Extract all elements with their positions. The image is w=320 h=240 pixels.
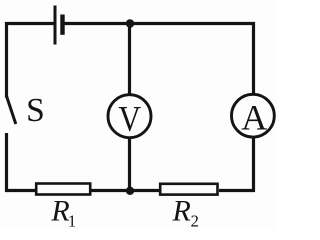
svg-text:R: R [172,194,191,227]
label R1 [50,194,76,230]
battery cell (long plate) [54,6,57,45]
wire top-left (left corner to battery) [5,22,55,25]
wire right side lower (ammeter to bottom-right corner) [252,138,255,193]
resistor R1 [36,184,90,195]
wire resistor R1 to bottom-left corner [5,189,35,192]
label R2 [172,194,199,230]
svg-text:R: R [50,194,69,227]
switch S blade [7,96,16,124]
svg-text:1: 1 [68,211,76,229]
node bottom junction [126,187,134,195]
svg-text:S: S [26,92,45,129]
wire left side lower (bottom corner up to switch) [5,133,8,192]
battery cell (short thick plate) [60,15,64,35]
ammeter A [232,94,275,137]
wire battery to top node [65,22,131,25]
svg-text:A: A [241,97,267,137]
voltmeter V [108,95,151,139]
wire middle branch upper (top node to voltmeter) [128,24,131,95]
node top junction [126,19,135,28]
wire bottom-right corner to resistor R2 [219,189,255,192]
wire top node to top-right corner [130,22,255,25]
resistor R2 [160,184,217,195]
wire bottom node to resistor R1 [92,189,131,192]
wire middle branch lower (voltmeter to bottom node) [128,138,131,191]
svg-text:2: 2 [191,211,199,229]
wire left side upper (top corner down to switch) [5,22,8,98]
svg-text:V: V [118,99,141,139]
wire right side upper (corner to ammeter) [252,22,255,94]
wire resistor R2 to bottom node [130,189,159,192]
